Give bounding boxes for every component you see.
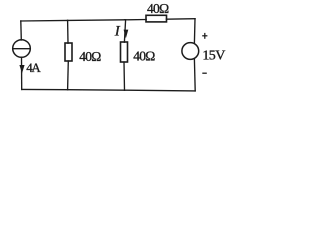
wire: R1 branch lower lead — [67, 61, 70, 90]
svg-text:15V: 15V — [202, 49, 225, 64]
resistor R1 body — [65, 43, 72, 61]
wire top segment: node of R1 to node of R2 — [68, 19, 125, 22]
wire top segment: right lead of R3 to top-right corner — [166, 18, 195, 21]
wire bottom segment: node of R1 to node of R2 — [68, 89, 125, 92]
arrowhead: 4A current direction (down) — [19, 65, 24, 73]
wire: R2 branch lower lead — [123, 62, 126, 90]
svg-text:40Ω: 40Ω — [133, 49, 155, 64]
wire: R2 branch upper lead with current I — [124, 20, 125, 42]
resistor R2 body — [121, 42, 128, 62]
label: voltage source polarity + — [202, 33, 207, 39]
svg-text:40Ω: 40Ω — [147, 1, 169, 16]
svg-text:I: I — [114, 23, 121, 39]
resistor R3 body (top, horizontal) — [146, 15, 167, 22]
svg-text:4A: 4A — [26, 60, 41, 75]
current source Is bar — [13, 48, 30, 50]
voltage source Us circle — [182, 43, 199, 60]
wire top segment: node of R2 to left lead of R3 — [125, 19, 147, 21]
svg-text:40Ω: 40Ω — [79, 49, 101, 64]
label: voltage source polarity - — [202, 72, 207, 74]
wire left segment: current source to bottom-left corner — [21, 57, 23, 89]
wire top segment: left corner to node of R1 — [21, 19, 68, 22]
wire: R1 branch upper lead — [67, 20, 69, 43]
current source Is circle — [13, 40, 31, 58]
wire right segment: voltage source to bottom-right corner — [193, 59, 196, 91]
wire bottom segment: node of R2 to bottom-right corner — [125, 89, 196, 92]
wire right segment: top corner down to voltage source — [193, 19, 196, 44]
arrowhead: branch current I (down) — [124, 30, 129, 39]
wire bottom segment: left corner to node of R1 — [22, 88, 68, 90]
wire left segment: top corner down to current source — [20, 21, 23, 40]
